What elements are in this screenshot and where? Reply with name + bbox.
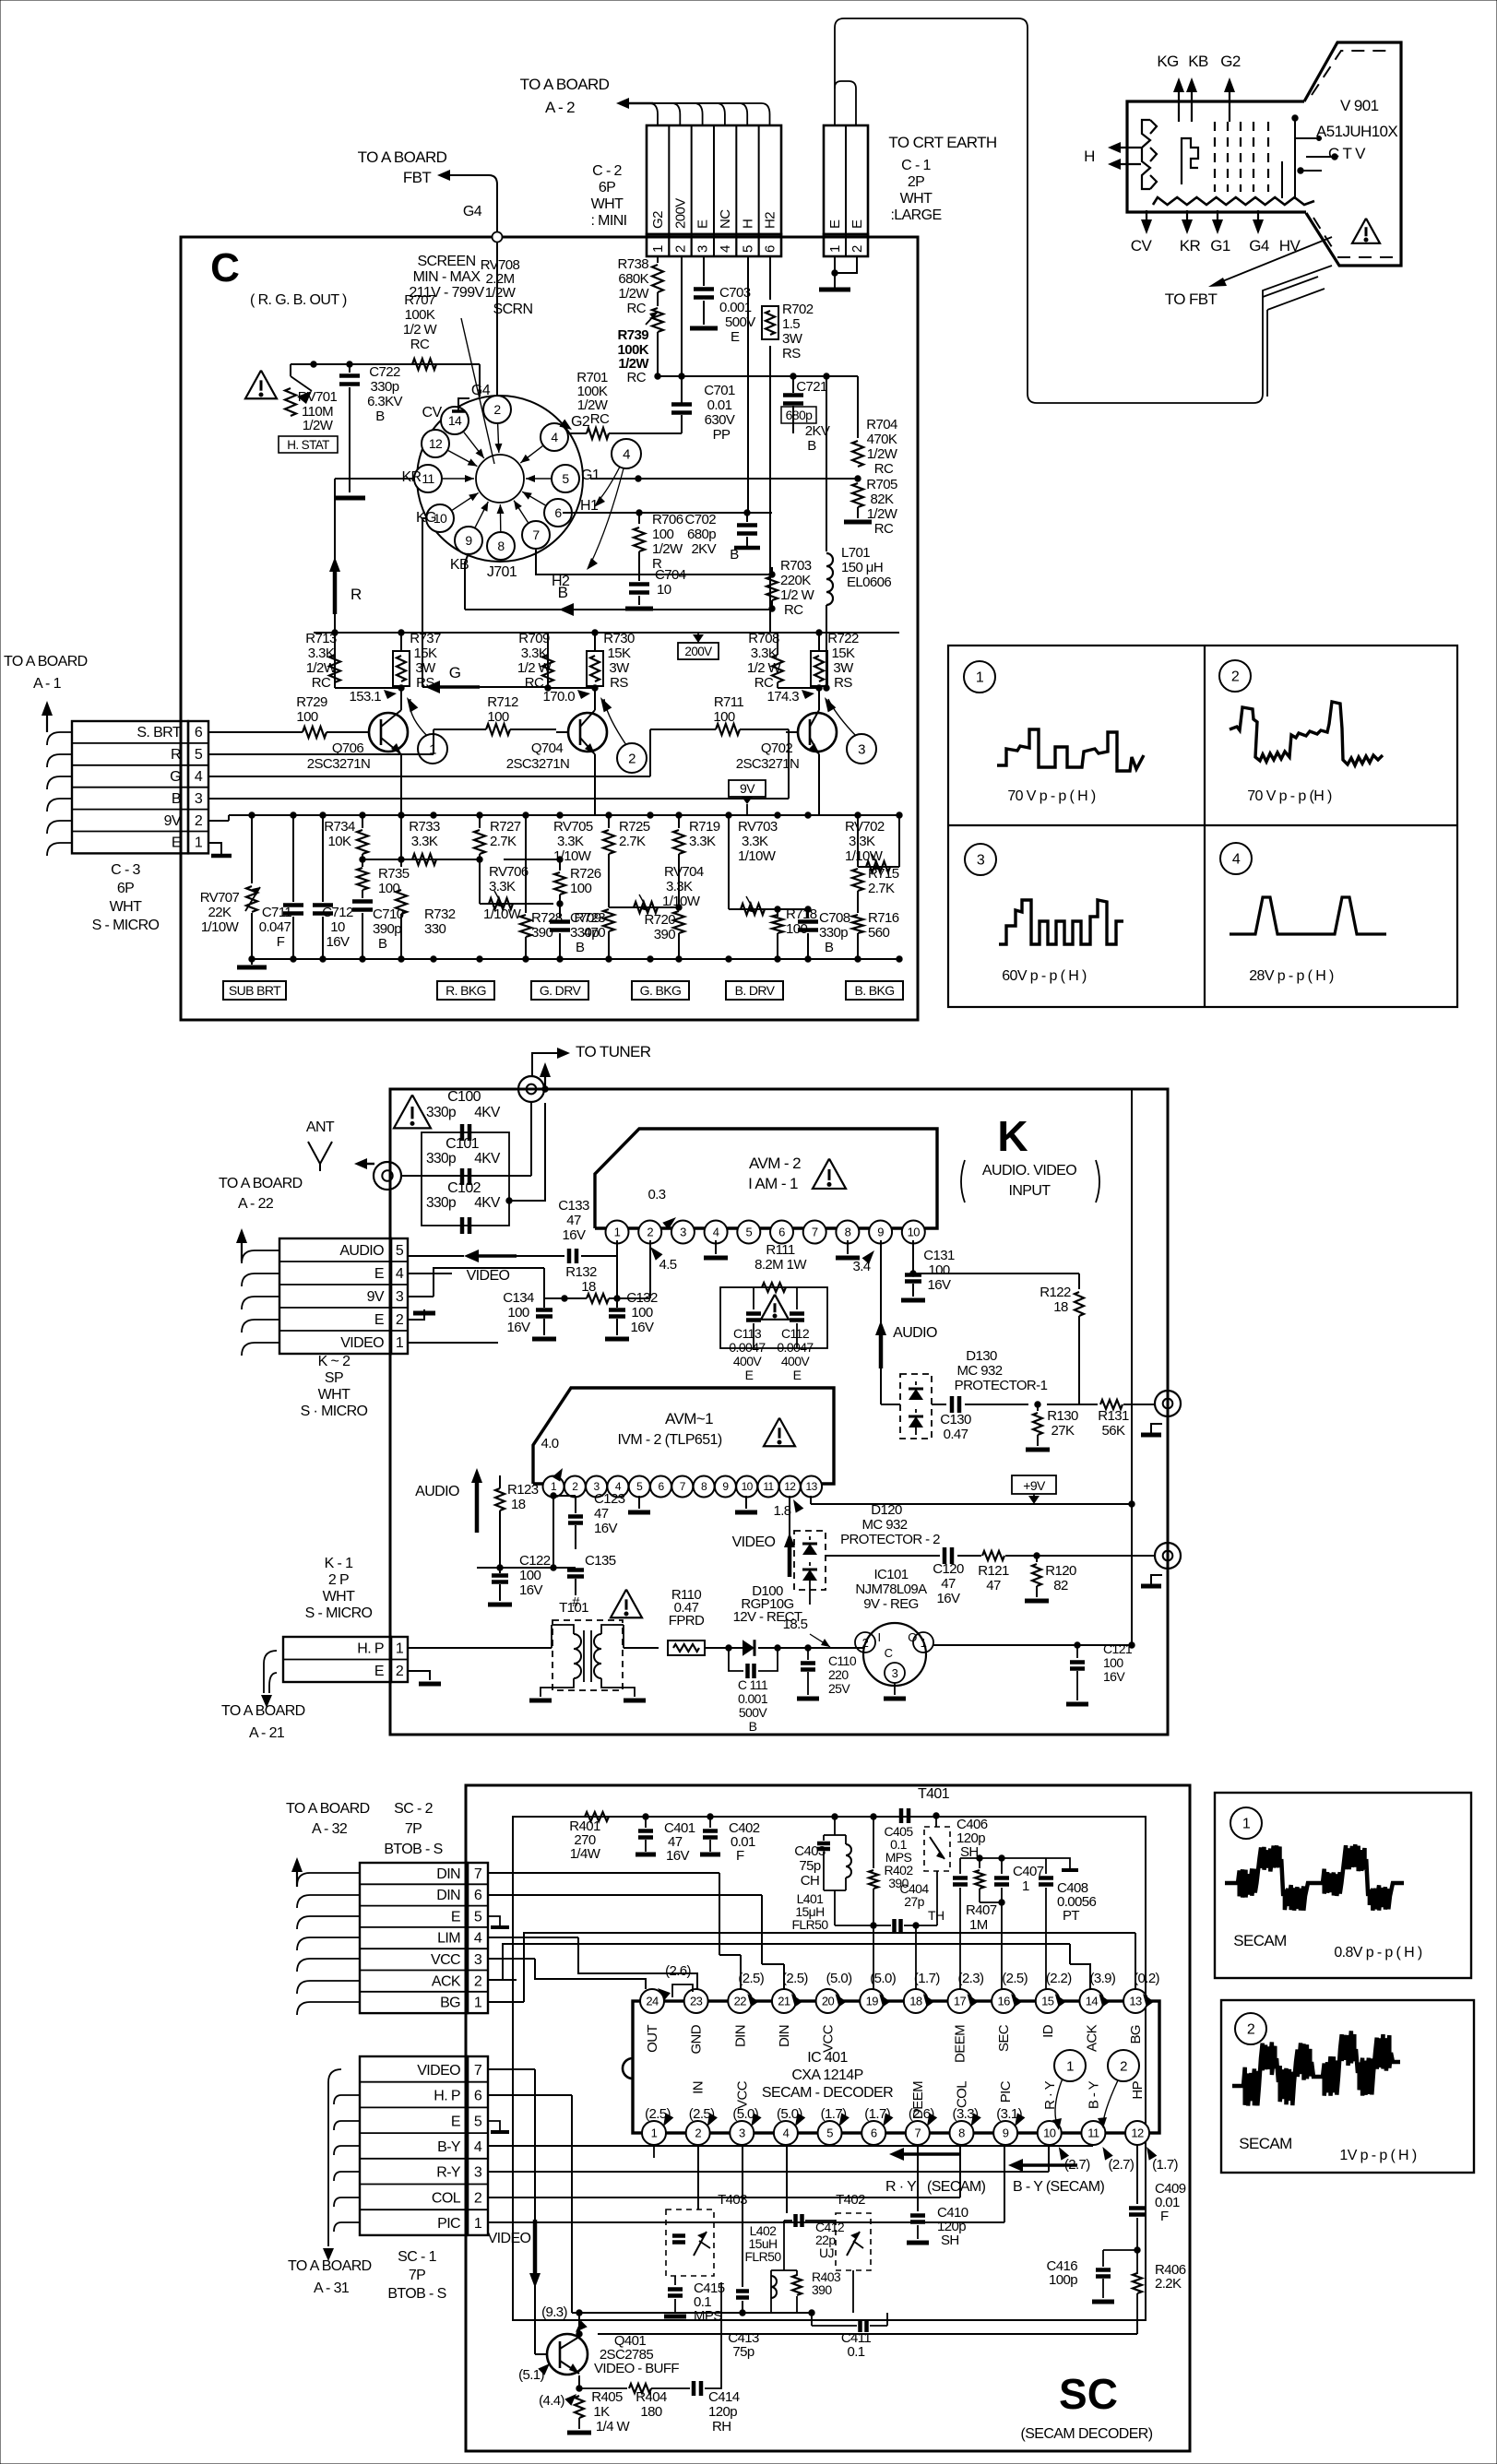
svg-text:1: 1 [614,1226,621,1239]
svg-text:FLR50: FLR50 [744,2249,781,2264]
RV706 3.3K pot [461,859,480,860]
R728 390 resistor [525,904,527,913]
svg-text:6P: 6P [599,180,615,195]
A-22 fan arrow [241,1226,243,1238]
R726 100 resistor [559,859,561,871]
connector SC-2 [360,1863,468,2013]
svg-text:1.5: 1.5 [782,316,800,332]
svg-text:C414: C414 [708,2389,740,2405]
svg-text:7: 7 [915,2126,921,2140]
svg-text:3.3K: 3.3K [521,646,548,661]
svg-text:AVM - 2: AVM - 2 [749,1155,801,1172]
svg-text:G. DRV: G. DRV [540,983,582,998]
svg-text:9: 9 [1003,2126,1009,2140]
svg-text:4: 4 [474,2139,482,2155]
A-32 fan arrow [296,1868,298,1887]
svg-text:WHT: WHT [318,1387,350,1403]
svg-text:0.01: 0.01 [707,397,732,413]
svg-text:E: E [849,219,865,229]
svg-text:6: 6 [474,1888,482,1903]
C704 10 cap [629,582,649,586]
SC-1 E5 ground stub [488,2121,500,2130]
svg-text:10: 10 [908,1226,921,1239]
svg-text:R111: R111 [766,1242,794,1258]
svg-text:D120: D120 [871,1502,902,1518]
svg-text:8.2M 1W: 8.2M 1W [754,1257,807,1273]
T101 grounds [541,1688,563,1697]
svg-text:C722: C722 [369,364,400,380]
svg-text:E: E [793,1368,802,1382]
svg-text:V 901: V 901 [1340,97,1379,114]
svg-text:16V: 16V [1103,1669,1125,1684]
circled 1 [418,734,447,764]
L701 150uH coil [826,376,827,551]
svg-text:2: 2 [474,1973,482,1989]
svg-text:1: 1 [1022,1878,1029,1894]
svg-text:27K: 27K [1051,1423,1075,1439]
IC101 ground [894,1683,896,1695]
svg-text:14: 14 [1086,1995,1099,2008]
SC-1 PIC1 wire [488,2221,1004,2223]
A-1 fan wires [46,712,48,732]
svg-text:R130: R130 [1047,1408,1078,1424]
ANT arrow to jack [354,1158,367,1169]
svg-text:200V: 200V [684,645,712,658]
svg-text:1: 1 [551,1480,557,1493]
C101 cap [460,1168,465,1185]
svg-text:K - 1: K - 1 [325,1556,353,1571]
svg-text:4: 4 [396,1266,404,1282]
svg-text:10: 10 [330,919,345,935]
CRT arrows H left [1117,147,1141,148]
svg-text:RH: RH [712,2419,731,2434]
svg-text:9: 9 [465,533,472,548]
svg-text:4: 4 [1232,852,1241,868]
svg-text:TH: TH [928,1908,944,1923]
svg-text:1: 1 [474,2216,482,2232]
AUDIO up arrow K right [879,1332,884,1368]
svg-text:13: 13 [1129,1995,1142,2008]
svg-text:R723: R723 [575,910,606,926]
IC101 regulator circle [808,1647,864,1649]
svg-text:4: 4 [474,1931,482,1947]
connector C-3 6P WHT S-MICRO [72,721,188,853]
R702 1.5 3W RS boxed resistor [769,256,771,300]
svg-text:200V: 200V [672,198,688,229]
svg-text:5: 5 [636,1480,643,1493]
CRT dashed inner outline [1312,51,1393,95]
C135 cap [567,1568,584,1572]
svg-text:AUDIO: AUDIO [339,1243,384,1259]
svg-text:R713: R713 [305,631,337,646]
svg-text:(0.2): (0.2) [1134,1971,1159,1986]
C130 0.47 cap [932,1404,946,1405]
wire C721 R704 node [826,375,858,377]
circled 2 B-Y ref [1108,2050,1139,2081]
svg-text:16V: 16V [631,1320,654,1335]
svg-text:12: 12 [1131,2126,1144,2140]
svg-text:10: 10 [742,1480,754,1493]
wire KR from pin11 [335,478,413,480]
svg-text:0.47: 0.47 [944,1427,968,1442]
svg-text:1: 1 [921,1636,927,1650]
svg-text:E: E [695,219,711,229]
svg-text:(4.4): (4.4) [539,2393,564,2409]
C702 680p cap [746,513,748,522]
200V bus [314,632,899,634]
SC-1 fan arrow [328,2069,341,2246]
svg-text:330p: 330p [371,379,399,395]
R404 180 resistor [579,2387,627,2389]
svg-text:6: 6 [474,2089,482,2104]
C413 leg [736,2289,749,2293]
pin1 wire VIDEO out [616,1240,618,1256]
svg-text:2SC3271N: 2SC3271N [736,756,800,772]
G1 wire [590,478,858,480]
pin4 ground [715,1240,717,1254]
svg-text:R131: R131 [1098,1408,1129,1424]
svg-text:: MINI: : MINI [590,213,626,229]
svg-text:100: 100 [378,881,399,896]
svg-text:GND: GND [689,2024,705,2054]
transistor Q706 2SC3271N [369,713,408,752]
connector SC-1 [360,2056,468,2235]
svg-text:SH: SH [941,2233,959,2248]
pin5 wire to T402 [786,2145,788,2213]
svg-text:1: 1 [1242,1817,1251,1832]
svg-text:VCC: VCC [431,1952,460,1968]
svg-text:G2: G2 [650,211,666,229]
AVM-2 pins [606,1221,629,1244]
svg-text:2: 2 [195,813,203,829]
svg-text:16V: 16V [928,1277,951,1293]
svg-text:R120: R120 [1045,1563,1076,1579]
svg-text:100: 100 [1103,1655,1123,1670]
svg-text:D130: D130 [966,1348,997,1364]
svg-text:100: 100 [631,1305,652,1321]
svg-text:SC - 2: SC - 2 [394,1801,433,1817]
svg-text:(2.7): (2.7) [1108,2157,1134,2173]
svg-text:WHT: WHT [900,191,933,207]
svg-text:5: 5 [396,1243,404,1259]
SECAM waveform box 1 [1215,1793,1471,1978]
svg-text:1: 1 [474,1996,482,2011]
svg-text:220: 220 [828,1667,849,1682]
svg-text:R711: R711 [714,694,744,710]
svg-text:28V p - p ( H ): 28V p - p ( H ) [1249,968,1334,984]
svg-text:3W: 3W [415,660,436,676]
K-1 E wire ground [408,1671,430,1680]
svg-text:22: 22 [734,1995,747,2008]
svg-text:2: 2 [1231,669,1240,685]
svg-text:7: 7 [474,1866,482,1882]
svg-text:1.8: 1.8 [773,1503,790,1519]
IC401 bottom pins [642,2121,666,2145]
svg-text:2.7K: 2.7K [619,834,646,849]
C board outline [181,237,918,1020]
svg-text:WHT: WHT [110,899,142,915]
lower network box outline [249,812,255,818]
svg-text:R709: R709 [518,631,550,646]
svg-text:(SECAM): (SECAM) [927,2179,986,2195]
svg-text:H: H [740,219,755,229]
waveform circled 4 [1220,843,1252,874]
IC401 CXA1214P [633,2001,1159,2133]
svg-text:RS: RS [834,675,852,691]
svg-text:E: E [451,2114,460,2129]
svg-text:R735: R735 [378,866,410,882]
svg-text:C122: C122 [519,1553,551,1569]
socket pin 8 [487,532,515,560]
svg-text:1M: 1M [969,1917,988,1933]
svg-text:RC: RC [590,411,610,427]
svg-text:RV705: RV705 [553,819,593,835]
wire node row y408 [658,375,858,377]
svg-text:10K: 10K [328,834,351,849]
svg-text:1/2 W: 1/2 W [403,322,438,338]
R122 18 resistor [1075,1292,1084,1316]
svg-text:11: 11 [763,1480,774,1493]
R131 56K resistor [1047,1404,1098,1405]
svg-text:1/2W: 1/2W [867,506,898,522]
L402 R403 legs [770,2270,772,2313]
svg-text:R729: R729 [296,694,327,710]
svg-text:G4: G4 [471,383,491,398]
svg-text:6P: 6P [117,881,134,896]
svg-text:15K: 15K [608,646,631,661]
svg-text:153.1: 153.1 [349,689,381,705]
svg-text:IN: IN [691,2081,707,2094]
svg-text:12: 12 [429,436,443,451]
svg-text:680K: 680K [618,271,648,287]
svg-text:VCC: VCC [821,2024,837,2053]
svg-text:C: C [885,1646,893,1660]
svg-text:MIN - MAX: MIN - MAX [413,269,481,285]
C120 47 16V cap [943,1547,947,1564]
socket pin 11 [414,465,442,492]
svg-text:174.3: 174.3 [766,689,799,705]
svg-text:18.5: 18.5 [783,1617,808,1632]
svg-text:0.0047: 0.0047 [777,1340,814,1355]
SC-2 BG1 wire [488,2001,524,2003]
svg-text:R716: R716 [868,910,899,926]
svg-text:OUT: OUT [645,2025,660,2053]
svg-text:PIC: PIC [998,2080,1014,2103]
SC right column C409 [1136,2145,1138,2204]
svg-text:1/2W: 1/2W [652,541,683,557]
R705 82K resistor [852,483,863,507]
svg-text:3.3K: 3.3K [411,834,438,849]
svg-text:RC: RC [784,602,803,618]
svg-text:56K: 56K [1102,1423,1125,1439]
svg-text:7P: 7P [409,2268,425,2283]
svg-text:3: 3 [474,2165,482,2181]
svg-text:(2.5): (2.5) [1002,1971,1028,1986]
svg-text:E: E [745,1368,754,1382]
svg-text:500V: 500V [725,314,755,330]
svg-text:5: 5 [195,747,203,763]
svg-text:20: 20 [822,1995,835,2008]
pin12 pin13 wires [789,1496,790,1573]
svg-text:4KV: 4KV [474,1105,501,1120]
regulator out wire [933,1644,1077,1646]
svg-text:3: 3 [739,2126,745,2140]
svg-text:1/2W: 1/2W [867,446,898,462]
C111 bypass cap [726,1645,731,1651]
svg-text:100: 100 [519,1568,541,1583]
svg-text:2: 2 [493,402,501,417]
H2 wire [536,550,575,575]
svg-text:4: 4 [783,2126,790,2140]
svg-text:RV703: RV703 [738,819,778,835]
svg-text:C708: C708 [819,910,850,926]
svg-text:DIN: DIN [732,2025,748,2047]
H1 wire [563,512,772,514]
svg-text:C - 3: C - 3 [111,862,140,878]
R718 100 resistor [777,909,778,917]
svg-text:470: 470 [584,925,605,941]
svg-text:(2.3): (2.3) [958,1971,984,1986]
svg-text:+9V: +9V [1023,1478,1046,1493]
svg-text:R737: R737 [410,631,441,646]
svg-text:4: 4 [718,245,733,253]
waveform 1 trace [997,729,1144,771]
svg-text:KG: KG [1157,53,1178,70]
R120 82 resistor [1034,1553,1040,1558]
screen leader line [461,318,494,464]
svg-text:G1: G1 [1210,237,1230,255]
svg-text:16V: 16V [507,1320,530,1335]
SC-1 COL2 wire [488,2197,960,2198]
svg-text:C: C [210,245,240,290]
svg-text:NC: NC [718,209,733,229]
svg-text:560: 560 [868,925,889,941]
svg-text:R722: R722 [827,631,859,646]
svg-text:H: H [1084,148,1095,165]
svg-text:1/2 W: 1/2 W [780,587,815,603]
collector node wire [335,687,401,689]
svg-text:LIM: LIM [437,1931,460,1947]
svg-text:B - Y (SECAM): B - Y (SECAM) [1013,2179,1104,2195]
svg-text:ACK: ACK [1084,2024,1099,2052]
RV708 screen pot [657,292,659,306]
svg-text:47: 47 [986,1578,1001,1593]
svg-text:ACK: ACK [432,1973,461,1989]
svg-text:2: 2 [628,751,636,766]
CRT grid electrodes KG KB [1182,138,1198,184]
svg-text:3: 3 [695,245,711,253]
svg-text:8: 8 [497,539,505,553]
svg-text:6: 6 [763,245,778,253]
IC AVM-1 IVM-2 [533,1388,834,1484]
svg-text:100: 100 [928,1262,949,1278]
C132 100 16V cap [616,1256,618,1308]
SECAM waveform 2 trace [1232,2031,1400,2105]
wire RV701 C722 R707 node row [291,363,480,365]
svg-text:KR: KR [1180,237,1201,255]
CRT heater electrodes [1142,120,1150,189]
svg-text:R122: R122 [1040,1285,1071,1300]
svg-text:R730: R730 [603,631,635,646]
svg-text:INPUT: INPUT [1008,1183,1051,1199]
svg-text:6: 6 [778,1226,785,1239]
C711 0.047 cap [292,815,294,902]
svg-text:15K: 15K [414,646,437,661]
svg-text:3: 3 [680,1226,686,1239]
svg-text:4KV: 4KV [474,1195,501,1211]
waveform grid box [948,646,1457,1007]
svg-text:14: 14 [448,413,462,428]
svg-text:2: 2 [862,1636,869,1650]
svg-text:IC101: IC101 [873,1567,908,1582]
svg-text:VIDEO: VIDEO [467,1268,510,1284]
C-1 ground [834,256,836,278]
svg-text:R719: R719 [689,819,720,835]
svg-text:1/2W: 1/2W [303,418,334,433]
svg-text:9: 9 [877,1226,884,1239]
svg-text:70 V p - p (H ): 70 V p - p (H ) [1247,788,1332,804]
svg-text:C112: C112 [781,1326,810,1341]
svg-text:TO A BOARD: TO A BOARD [221,1703,305,1719]
svg-text:4: 4 [713,1226,719,1239]
svg-text:120p: 120p [708,2404,737,2420]
svg-text:2.2K: 2.2K [1155,2276,1182,2292]
svg-text:K ~ 2: K ~ 2 [318,1354,351,1369]
K board internal audio bus [881,1404,900,1405]
CRT warning triangle [1352,219,1380,243]
svg-text:2: 2 [396,1312,404,1328]
svg-text:RC: RC [525,675,544,691]
svg-text:3: 3 [474,1952,482,1968]
svg-text:I: I [877,1630,880,1644]
svg-text:2 P: 2 P [328,1572,349,1588]
svg-text:G4: G4 [1249,237,1269,255]
socket pin 12 [422,430,449,457]
svg-text:KG: KG [416,510,436,526]
svg-text:16V: 16V [563,1227,586,1243]
connector C-1 2P WHT LARGE [824,125,868,234]
svg-text:PIC: PIC [437,2216,460,2232]
svg-text:TO A BOARD: TO A BOARD [286,1801,370,1817]
svg-text:1/10W: 1/10W [201,919,240,935]
svg-text:100: 100 [652,527,673,542]
svg-text:SECAM: SECAM [1233,1932,1286,1949]
svg-text:RV707: RV707 [200,890,240,906]
TO FBT arrow [1216,237,1332,284]
svg-text:FPRD: FPRD [669,1613,705,1629]
svg-text:KB: KB [1188,53,1208,70]
svg-text:C110: C110 [828,1653,857,1668]
svg-text::LARGE: :LARGE [890,207,941,223]
svg-text:6.3KV: 6.3KV [367,394,402,409]
C131 100 16V cap [912,1240,914,1271]
svg-text:PT: PT [1063,1908,1079,1924]
collector node wire [548,687,595,689]
svg-text:TO A BOARD: TO A BOARD [288,2258,372,2274]
svg-text:RC: RC [627,301,647,316]
svg-text:1/10W: 1/10W [483,906,522,922]
svg-text:1: 1 [396,1335,404,1351]
R121 47 resistor [957,1555,981,1557]
C101 C102 box [422,1132,509,1226]
wire G arrow [425,686,548,688]
svg-text:2: 2 [396,1664,404,1679]
socket pin 14 [441,407,469,434]
svg-text:7P: 7P [405,1821,422,1837]
svg-text:7: 7 [474,2063,482,2079]
tuner jack [518,1076,544,1102]
svg-text:7: 7 [532,527,540,542]
